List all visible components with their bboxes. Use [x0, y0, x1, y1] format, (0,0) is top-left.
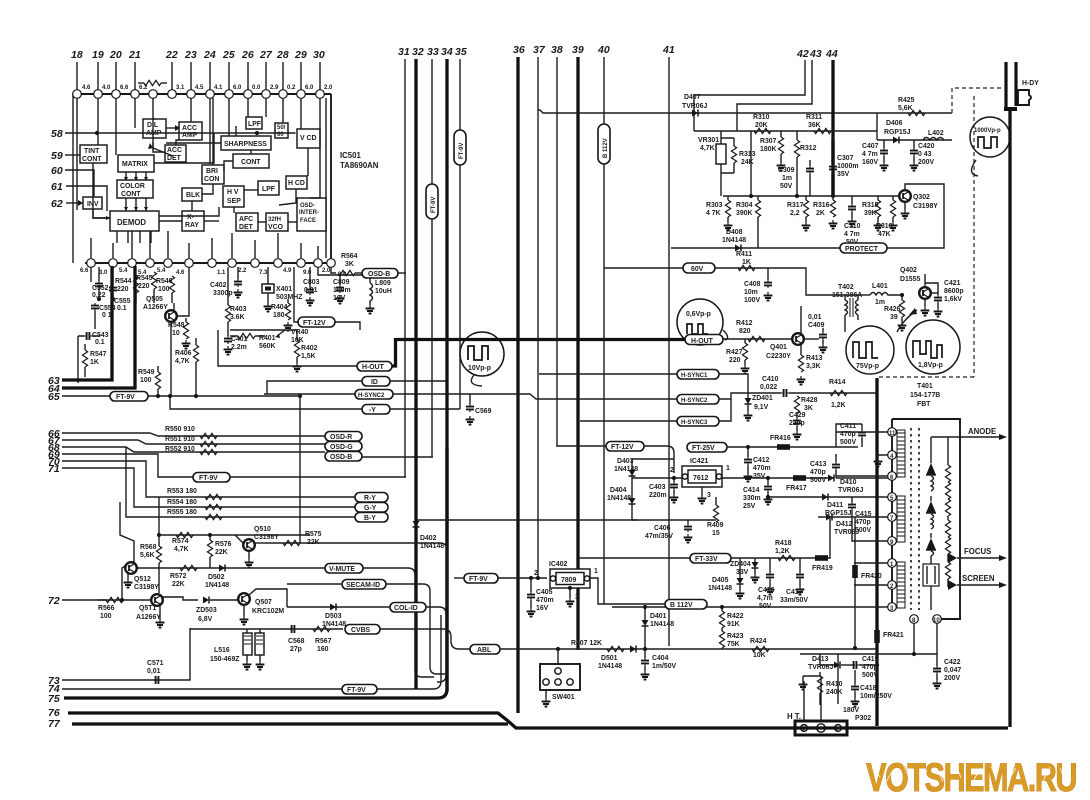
wire 72 row: [111, 599, 151, 601]
svg-text:X401: X401: [276, 286, 292, 293]
top pin circles: [73, 90, 82, 99]
bus 76 thick: [68, 713, 508, 721]
svg-text:72: 72: [48, 595, 60, 607]
svg-text:R411: R411: [736, 251, 752, 258]
wire row y196: [723, 195, 905, 197]
IC501 right edge double: [330, 94, 332, 263]
svg-text:B 112V: B 112V: [670, 602, 693, 609]
wire ft12v right: [335, 322, 360, 330]
pin 29 wire: [300, 62, 302, 90]
svg-text:TINT: TINT: [84, 148, 100, 155]
block H CD: [286, 176, 307, 189]
main wire from line37 to right: [538, 110, 952, 113]
internal wire pin21 to matrix: [134, 98, 136, 128]
svg-text:D403: D403: [617, 458, 634, 465]
svg-text:OSD-B: OSD-B: [368, 271, 390, 278]
svg-text:R422: R422: [727, 613, 744, 620]
svg-text:R568: R568: [140, 544, 157, 551]
svg-text:41: 41: [662, 44, 675, 56]
svg-text:C406: C406: [654, 525, 671, 532]
wire c809 l809 feed: [318, 267, 370, 275]
capacitor C429: [796, 413, 798, 418]
svg-text:39: 39: [572, 44, 584, 56]
svg-text:H-SYNC1: H-SYNC1: [681, 373, 708, 379]
svg-text:B 112V: B 112V: [603, 138, 609, 158]
block ACC DET: [165, 145, 186, 162]
svg-text:50V: 50V: [780, 183, 793, 190]
wire bottom row: [800, 653, 937, 655]
svg-text:C408: C408: [744, 281, 761, 288]
wire to q507: [210, 599, 238, 601]
svg-text:CONT: CONT: [82, 156, 102, 163]
wire left cluster vertical: [77, 336, 79, 383]
svg-text:500V: 500V: [855, 527, 871, 534]
svg-text:C416: C416: [758, 587, 775, 594]
oval CVBS: [345, 625, 380, 635]
capacitor C554: [91, 303, 99, 311]
vertical feed x300: [299, 396, 301, 543]
internal wire accdet-dlamp: [153, 142, 165, 152]
wire 67: [62, 440, 325, 444]
wire c411 top: [836, 424, 862, 447]
block BLK: [182, 188, 202, 201]
svg-text:1N4148: 1N4148: [205, 582, 229, 589]
wire h-sync2 right: [393, 393, 517, 395]
resistor R549: [155, 372, 160, 389]
right thick vertical: [1008, 108, 1011, 727]
oval B-Y: [355, 513, 388, 523]
svg-text:47m/35V: 47m/35V: [645, 533, 673, 540]
bleeder parallel box: [930, 556, 932, 564]
svg-text:33m/50V: 33m/50V: [780, 597, 808, 604]
oval SECAM-ID: [342, 580, 386, 590]
screen arrow: [948, 580, 957, 590]
svg-text:503MHZ: 503MHZ: [276, 294, 303, 301]
svg-text:2K: 2K: [816, 210, 825, 217]
internal wire matrix right long: [154, 133, 214, 163]
block V CD: [297, 129, 320, 148]
svg-text:4,7K: 4,7K: [175, 358, 190, 365]
capacitor C406b: [687, 520, 689, 524]
IC402 pin3 ground: [569, 588, 571, 598]
svg-text:FR421: FR421: [883, 632, 904, 639]
capacitor C411: [858, 430, 866, 438]
svg-text:2: 2: [670, 467, 674, 474]
svg-text:3.6K: 3.6K: [230, 314, 245, 321]
svg-text:59: 59: [51, 150, 63, 162]
svg-text:91K: 91K: [727, 621, 740, 628]
resistor R313: [731, 146, 736, 163]
svg-text:0,022: 0,022: [760, 384, 777, 391]
svg-text:C3198Y: C3198Y: [913, 203, 938, 210]
svg-text:SHARPNESS: SHARPNESS: [224, 141, 267, 148]
internal wire hvsep-afc: [233, 207, 235, 213]
svg-text:8600p: 8600p: [944, 288, 964, 295]
HV diode 1: [926, 463, 936, 475]
wire 65 right: [148, 395, 300, 397]
svg-text:15: 15: [712, 530, 720, 537]
svg-text:SECAM-ID: SECAM-ID: [346, 582, 380, 589]
wire -y right: [390, 408, 460, 410]
svg-text:C413: C413: [810, 461, 827, 468]
svg-text:1K: 1K: [90, 359, 99, 366]
wire osd-b to line31: [398, 272, 406, 274]
internal wire inv-demod: [93, 209, 110, 218]
svg-text:0.2: 0.2: [287, 85, 296, 91]
svg-text:SEP: SEP: [227, 198, 241, 205]
svg-text:L401: L401: [872, 283, 888, 290]
internal wire dlamp-accamp: [166, 127, 179, 129]
svg-text:1m: 1m: [875, 299, 885, 306]
oval ID: [362, 377, 390, 387]
capacitor C407: [883, 140, 885, 148]
wire c410 right: [789, 392, 877, 394]
zener ZD401: [745, 398, 752, 404]
svg-text:240K: 240K: [826, 689, 842, 696]
svg-text:100: 100: [100, 613, 112, 620]
wire 65: [62, 395, 112, 397]
pin 27 wire: [265, 62, 267, 90]
svg-text:H-SYNC2: H-SYNC2: [358, 393, 385, 399]
svg-text:154-177B: 154-177B: [910, 392, 940, 399]
diode D410: [828, 475, 834, 482]
svg-text:R544: R544: [115, 278, 132, 285]
svg-text:27p: 27p: [290, 646, 302, 653]
internal wire pin29 vcd: [300, 98, 302, 129]
wire pin6: [836, 475, 888, 477]
svg-text:2.0: 2.0: [324, 85, 333, 91]
wire q505 emitter down: [170, 322, 172, 395]
svg-text:27: 27: [259, 49, 273, 61]
FBT pin 1: [888, 559, 897, 568]
svg-text:R410: R410: [826, 681, 843, 688]
svg-text:OSD-R: OSD-R: [330, 434, 352, 441]
svg-text:D402: D402: [420, 535, 437, 542]
ground below R548: [182, 340, 191, 349]
resistor R425: [908, 110, 925, 115]
svg-text:AFC: AFC: [239, 216, 253, 223]
svg-text:-Y: -Y: [369, 407, 376, 414]
svg-text:BLK: BLK: [186, 192, 200, 199]
FBT pin 5: [888, 493, 897, 502]
q507 collector wire: [249, 589, 287, 607]
oval OSD-B top: [362, 269, 398, 279]
bundle corner CVBS down: [380, 629, 470, 649]
svg-text:60: 60: [51, 165, 63, 177]
svg-text:H-SYNC2: H-SYNC2: [681, 398, 708, 404]
capacitor C408: [767, 268, 769, 280]
wire 60v right: [715, 268, 845, 295]
capacitor C403: [673, 478, 675, 482]
svg-text:Q401: Q401: [770, 344, 787, 351]
resistor R413: [798, 355, 803, 372]
svg-text:SW401: SW401: [552, 694, 575, 701]
q402 collector: [931, 292, 938, 294]
svg-text:390K: 390K: [736, 210, 752, 217]
svg-text:40: 40: [597, 44, 610, 56]
pill FT-9V on line 35: [454, 130, 466, 165]
svg-text:33V: 33V: [736, 569, 749, 576]
svg-text:R312: R312: [800, 145, 817, 152]
svg-text:TVR06J: TVR06J: [838, 487, 863, 494]
wire r575 corner down: [440, 543, 447, 607]
block X RAY: [182, 211, 204, 231]
svg-text:H CD: H CD: [288, 180, 305, 187]
bleeder resistor chain: [947, 437, 949, 465]
svg-text:1: 1: [726, 465, 730, 472]
svg-text:VCO: VCO: [268, 224, 284, 231]
svg-text:200V: 200V: [918, 159, 934, 166]
svg-text:R414: R414: [829, 379, 846, 386]
svg-text:4 7K: 4 7K: [706, 210, 721, 217]
oval H-SYNC1: [677, 370, 719, 380]
q512 base feed: [122, 566, 125, 600]
svg-text:6.0: 6.0: [305, 85, 314, 91]
wire r424 row: [669, 648, 877, 650]
q512 emitter gnd: [127, 573, 129, 579]
svg-text:LPF: LPF: [248, 121, 261, 128]
svg-text:FT-9V: FT-9V: [199, 475, 218, 482]
svg-text:D502: D502: [208, 574, 225, 581]
dashed wire to H-DY: [952, 88, 1004, 113]
svg-text:2.9: 2.9: [270, 85, 279, 91]
svg-text:24: 24: [203, 49, 216, 61]
waveform circle 1000Vp-p: [970, 117, 1010, 157]
wire pin6 row: [836, 477, 888, 479]
svg-text:T402: T402: [838, 284, 854, 291]
capacitor C409: [805, 338, 819, 340]
wire osd-b to line 33: [362, 456, 433, 458]
diode D413: [834, 662, 840, 669]
resistor R410: [819, 672, 821, 676]
oval FT-33V: [690, 554, 731, 564]
resistor R548: [185, 318, 187, 322]
FBT winding mid: [897, 496, 905, 542]
svg-text:22K: 22K: [307, 539, 320, 546]
wire ft9v-ic402: [498, 577, 547, 579]
capacitor C414: [767, 478, 769, 484]
svg-text:L402: L402: [928, 130, 944, 137]
block INV: [83, 197, 102, 209]
svg-text:FT-9V: FT-9V: [116, 394, 135, 401]
FBT pin 7: [888, 513, 897, 522]
svg-text:0 43: 0 43: [918, 151, 932, 158]
svg-text:R575: R575: [305, 531, 322, 538]
svg-text:180K: 180K: [760, 146, 776, 153]
svg-text:3.0: 3.0: [99, 270, 108, 276]
svg-text:CVBS: CVBS: [351, 627, 371, 634]
svg-text:R427: R427: [726, 349, 743, 356]
svg-text:1N4148: 1N4148: [598, 663, 622, 670]
svg-text:R551 910: R551 910: [165, 436, 195, 443]
svg-text:470p: 470p: [810, 469, 826, 476]
svg-text:60V: 60V: [691, 266, 704, 273]
internal wire pin22: [153, 98, 173, 156]
oval H-OUT left: [357, 362, 392, 372]
svg-text:R426: R426: [884, 306, 901, 313]
oval 60V: [683, 263, 715, 273]
block LPF mid: [258, 181, 279, 195]
svg-text:39K: 39K: [864, 210, 877, 217]
svg-text:OSD-G: OSD-G: [330, 444, 353, 451]
ground r410 left: [802, 676, 804, 681]
svg-text:COL-ID: COL-ID: [394, 605, 418, 612]
svg-text:16V: 16V: [536, 605, 549, 612]
svg-text:100m: 100m: [333, 287, 351, 294]
wire y520 mid: [417, 519, 637, 521]
svg-text:R547: R547: [90, 351, 107, 358]
oval FT-9V bottom: [342, 685, 377, 695]
svg-text:18: 18: [71, 49, 83, 61]
svg-text:1N4148: 1N4148: [650, 621, 674, 628]
svg-text:1N4148: 1N4148: [420, 543, 444, 550]
svg-text:R576: R576: [215, 541, 232, 548]
svg-text:D405: D405: [712, 577, 729, 584]
internal wire hv sep up: [235, 126, 237, 136]
wire h-sync2 left: [517, 394, 677, 399]
svg-text:Q5T1: Q5T1: [139, 605, 156, 612]
oval COL-ID: [390, 603, 426, 613]
wire h-sync2 right: [719, 393, 748, 399]
pin 26 wire: [247, 62, 249, 90]
svg-text:R550 910: R550 910: [165, 426, 195, 433]
rectifier stack wire: [930, 437, 932, 463]
svg-text:D408: D408: [726, 229, 743, 236]
wire pin11: [836, 431, 888, 433]
svg-text:BRI: BRI: [206, 168, 218, 175]
svg-text:500V: 500V: [810, 477, 826, 484]
resistor R303: [725, 200, 730, 217]
svg-text:H V: H V: [227, 189, 239, 196]
pin 24 wire: [209, 62, 211, 90]
bus line 31: [404, 59, 406, 477]
svg-text:75: 75: [48, 693, 60, 705]
svg-text:10m: 10m: [744, 289, 758, 296]
oval G-Y: [355, 503, 388, 513]
resistor R422: [721, 607, 723, 611]
svg-text:FR416: FR416: [770, 435, 791, 442]
svg-text:22K: 22K: [172, 581, 185, 588]
svg-text:ID: ID: [371, 379, 378, 386]
svg-text:47K: 47K: [878, 231, 891, 238]
svg-text:2.2: 2.2: [238, 268, 247, 274]
svg-text:D401: D401: [650, 613, 667, 620]
internal wire accdet-accamp: [176, 140, 179, 145]
svg-text:5,6K: 5,6K: [898, 105, 913, 112]
dashed corner to thick vertical: [879, 376, 974, 378]
svg-text:Q510: Q510: [254, 526, 271, 533]
svg-text:3.1: 3.1: [176, 85, 185, 91]
bus line 38: [556, 57, 558, 447]
q510 emitter ground: [248, 551, 250, 559]
svg-text:C422: C422: [944, 659, 961, 666]
svg-text:200V: 200V: [944, 675, 960, 682]
svg-text:TA8690AN: TA8690AN: [340, 161, 379, 170]
svg-text:C555: C555: [114, 298, 131, 305]
internal wire bri-con down: [212, 98, 214, 165]
svg-text:25V: 25V: [743, 503, 756, 510]
capacitor C307 thick: [831, 140, 834, 196]
resistor R568: [156, 546, 161, 563]
q507 emitter gnd: [243, 606, 245, 616]
svg-text:C307: C307: [837, 155, 854, 162]
bus line 34 thick: [445, 59, 448, 692]
svg-text:C421: C421: [944, 280, 961, 287]
svg-text:2.2m: 2.2m: [231, 344, 247, 351]
internal wire blk-xray: [191, 201, 193, 211]
wire 60V row: [604, 267, 683, 269]
svg-text:R545: R545: [136, 275, 153, 282]
bus line 32 thick: [414, 59, 417, 689]
svg-text:3: 3: [575, 594, 579, 601]
internal wire pin25 sharpness: [228, 98, 230, 136]
internal wire pin24: [209, 98, 211, 164]
pointer 0.6: [723, 330, 728, 340]
FBT HV winding sections: [931, 476, 934, 556]
svg-text:500V: 500V: [862, 672, 878, 679]
svg-text:0,01: 0,01: [808, 314, 822, 321]
svg-text:C309: C309: [778, 167, 795, 174]
svg-text:25: 25: [222, 49, 235, 61]
svg-text:H-OUT: H-OUT: [362, 364, 385, 371]
wire d413 left: [820, 654, 834, 665]
svg-text:IC421: IC421: [690, 458, 709, 465]
svg-text:FR419: FR419: [812, 565, 833, 572]
IC501 top bus line: [73, 93, 331, 95]
svg-text:220m: 220m: [649, 492, 667, 499]
svg-text:D410: D410: [840, 479, 857, 486]
vertical from ry row: [158, 497, 160, 535]
svg-text:1: 1: [594, 568, 598, 575]
svg-text:DET: DET: [239, 224, 254, 231]
internal wire pin30 osd: [310, 98, 320, 198]
svg-text:500V: 500V: [840, 439, 856, 446]
svg-text:36: 36: [513, 44, 525, 56]
svg-text:Q402: Q402: [900, 267, 917, 274]
svg-text:A1266Y: A1266Y: [143, 304, 168, 311]
svg-text:X-: X-: [187, 214, 195, 221]
oval B112V: [665, 600, 707, 610]
oval PROTECT: [840, 243, 887, 253]
svg-text:C410: C410: [762, 376, 779, 383]
wire 73: [62, 628, 190, 680]
svg-text:1N4148: 1N4148: [708, 585, 732, 592]
jumper between pin 21 and 22: [138, 82, 144, 84]
svg-text:R409: R409: [707, 522, 724, 529]
wire h-sync1 right: [719, 374, 748, 393]
resistor FR417: [793, 475, 806, 481]
resistor R428: [794, 396, 799, 413]
svg-text:L809: L809: [375, 280, 391, 287]
oval FT-9V at IC402: [464, 574, 498, 584]
waveform circle 0.6Vp-p: [677, 299, 723, 345]
pin 30 wire: [319, 62, 321, 90]
svg-text:CONT: CONT: [121, 191, 141, 198]
FBT pin 4: [888, 451, 897, 460]
internal wire xray right: [204, 220, 219, 222]
svg-text:R404: R404: [271, 304, 288, 311]
svg-text:22K: 22K: [215, 549, 228, 556]
wire 63 thick: [62, 266, 112, 380]
svg-text:35V: 35V: [753, 473, 766, 480]
oval H-SYNC2 left: [355, 390, 393, 400]
svg-text:31: 31: [398, 46, 410, 58]
wire vr40 h-out: [230, 329, 297, 331]
resistor R567: [313, 626, 330, 631]
svg-text:D406: D406: [886, 120, 903, 127]
svg-text:C568: C568: [288, 638, 305, 645]
wire 72: [62, 599, 111, 601]
